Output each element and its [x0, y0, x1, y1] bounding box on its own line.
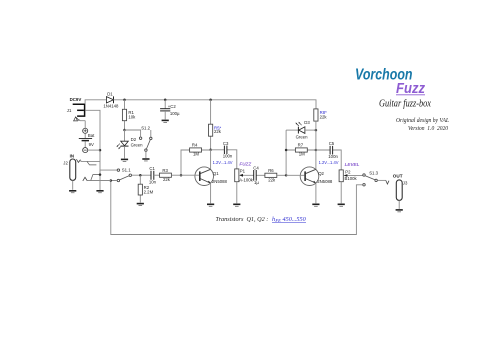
svg-text:Original design by VAL: Original design by VAL: [396, 118, 450, 124]
ground battery column: [96, 190, 103, 193]
svg-text:Bat: Bat: [88, 133, 95, 138]
node R2 tap: [139, 174, 142, 177]
wire J1 top to rail: [85, 100, 106, 104]
capacitor C4 1u: [244, 165, 265, 185]
switch S1.3: [349, 171, 386, 186]
svg-text:Version 1.0 2020: Version 1.0 2020: [408, 126, 448, 132]
svg-text:DC9V: DC9V: [70, 97, 82, 102]
ground P2: [338, 204, 345, 207]
svg-text:10k: 10k: [128, 115, 136, 120]
svg-text:J2: J2: [63, 160, 68, 165]
wire base node up to R7/D3: [285, 130, 287, 175]
capacitor C2 100u: [160, 100, 180, 120]
svg-text:D2: D2: [131, 137, 137, 142]
svg-text:100µ: 100µ: [170, 111, 180, 116]
svg-text:Green: Green: [296, 135, 309, 140]
svg-text:22k: 22k: [268, 177, 276, 182]
resistor R4 1M feedback: [181, 142, 211, 175]
node R7 left: [285, 149, 288, 152]
wire battery column: [85, 110, 100, 190]
svg-text:Q1: Q1: [213, 171, 219, 176]
credit line 1: [396, 118, 450, 124]
node Q2 base: [285, 174, 288, 177]
svg-text:1M: 1M: [299, 152, 305, 157]
LED D3 Green: [286, 120, 316, 140]
connector J2 input jack: [63, 154, 111, 190]
svg-text:450...550: 450...550: [283, 216, 307, 223]
svg-text:C1: C1: [149, 166, 155, 171]
svg-text:D1: D1: [107, 92, 113, 97]
pot P2 B100k LEVEL: [339, 162, 359, 204]
svg-text:C4: C4: [253, 165, 259, 170]
svg-text:2N5088: 2N5088: [317, 179, 333, 184]
svg-text:100n: 100n: [328, 154, 338, 159]
node Q1 base: [180, 174, 183, 177]
node input NC ground tap: [99, 173, 102, 176]
svg-text:D3: D3: [304, 120, 310, 125]
switch S1.2: [125, 125, 153, 158]
svg-text:Q2: Q2: [318, 171, 324, 176]
node D3-R8: [315, 129, 318, 132]
svg-text:22k: 22k: [163, 177, 171, 182]
connector J1 DC jack: [67, 104, 86, 121]
wire bypass loop: [111, 181, 363, 235]
svg-text:2.2M: 2.2M: [144, 189, 154, 194]
node rail-R1: [123, 99, 126, 102]
svg-text:100n: 100n: [223, 154, 233, 159]
node rail-R5: [209, 99, 212, 102]
svg-text:A-100k: A-100k: [239, 177, 253, 182]
resistor R5* 22k: [209, 100, 222, 150]
node bypass tap: [110, 179, 113, 182]
ground S1.2: [142, 158, 149, 161]
switch S1.1: [100, 168, 132, 182]
transistor Q2 2N5088: [286, 150, 333, 203]
label voltage Q2 collector: [319, 160, 339, 165]
ground C2: [162, 120, 169, 123]
svg-text:1N4148: 1N4148: [103, 103, 119, 108]
resistor R6 22k: [265, 168, 286, 183]
capacitor C1 10n: [149, 166, 160, 185]
svg-text:Guitar fuzz-box: Guitar fuzz-box: [379, 99, 431, 110]
wire input to S1.1 throw: [88, 180, 118, 182]
ground P1: [233, 204, 240, 207]
title Vorchoon: [355, 67, 413, 84]
resistor R1 10k: [122, 100, 136, 130]
connector J3 output jack: [386, 173, 408, 209]
svg-text:1.2V...1.4V: 1.2V...1.4V: [213, 160, 233, 165]
label voltage Q1 collector: [213, 160, 233, 165]
node Q1 collector: [209, 149, 212, 152]
svg-text:J3: J3: [403, 180, 408, 185]
svg-text:1M: 1M: [193, 152, 199, 157]
svg-text:Green: Green: [131, 143, 144, 148]
svg-text:1.2V...1.4V: 1.2V...1.4V: [319, 160, 339, 165]
svg-text:FUZZ: FUZZ: [239, 161, 251, 166]
svg-text:C5: C5: [329, 141, 335, 146]
node R7 right: [315, 149, 318, 152]
svg-text:C3: C3: [223, 141, 229, 146]
svg-text:10n: 10n: [149, 180, 157, 185]
wire +9V rail: [114, 100, 317, 109]
label DC9V: [70, 97, 82, 102]
svg-text:22k: 22k: [320, 114, 328, 119]
diode D1 1N4148: [103, 92, 119, 109]
pot P1 A-100k FUZZ: [235, 161, 254, 203]
svg-text:9V: 9V: [89, 142, 94, 147]
node rail-C2: [164, 99, 167, 102]
svg-text:R4: R4: [192, 142, 198, 147]
resistor R8* 22k: [314, 109, 328, 150]
svg-text:IN: IN: [70, 154, 74, 159]
note transistors hFE: [216, 216, 307, 223]
resistor R2 2.2M: [138, 175, 153, 202]
ground Q1 emitter: [207, 204, 214, 207]
ground J2: [69, 190, 76, 193]
resistor R3 22k: [160, 168, 182, 182]
svg-text:22k: 22k: [214, 129, 222, 134]
node R1-D2-S1.2: [123, 129, 126, 132]
svg-text:R7: R7: [298, 142, 304, 147]
resistor R7 1M: [286, 142, 316, 156]
capacitor C3 100n: [211, 141, 237, 169]
ground Q2 emitter: [312, 204, 319, 207]
LED D2 Green: [117, 130, 143, 158]
svg-text:S1.2: S1.2: [141, 125, 150, 130]
ground J3: [396, 209, 403, 212]
svg-text:S1.1: S1.1: [122, 168, 131, 173]
battery Bat 9V: [79, 121, 100, 153]
svg-text:R6: R6: [268, 168, 274, 173]
svg-text:LEVEL: LEVEL: [345, 162, 360, 167]
wire S1.1 pole to C1: [132, 174, 151, 176]
svg-text:1µ: 1µ: [254, 180, 259, 185]
svg-text:2N5088: 2N5088: [212, 179, 228, 184]
svg-text:S1.3: S1.3: [369, 171, 378, 176]
svg-text:J1: J1: [67, 108, 72, 113]
transistor Q1 2N5088: [181, 150, 228, 204]
svg-text:B100k: B100k: [345, 176, 358, 181]
svg-text:Transistors Q1, Q2 :: Transistors Q1, Q2 :: [216, 216, 269, 223]
credit line 2: [408, 126, 448, 132]
svg-text:OUT: OUT: [393, 173, 403, 178]
title Fuzz: [396, 81, 426, 97]
node battery minus tap: [99, 149, 102, 152]
svg-text:P2: P2: [345, 169, 351, 174]
capacitor C5 100n: [316, 141, 341, 170]
ground R2: [137, 203, 144, 206]
ground D2: [121, 159, 128, 162]
svg-text:R3: R3: [162, 168, 168, 173]
subtitle Guitar fuzz-box: [379, 99, 431, 110]
svg-text:+C2: +C2: [168, 104, 177, 109]
svg-text:P1: P1: [240, 169, 246, 174]
